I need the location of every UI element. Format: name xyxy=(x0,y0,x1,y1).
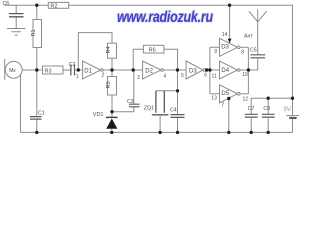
svg-text:VD1: VD1 xyxy=(93,112,104,118)
svg-text:10: 10 xyxy=(242,72,248,78)
svg-text:C2: C2 xyxy=(69,62,76,68)
svg-text:D5: D5 xyxy=(221,91,229,97)
svg-text:C6: C6 xyxy=(3,1,10,7)
svg-text:C8: C8 xyxy=(263,106,270,112)
svg-text:R1: R1 xyxy=(31,29,37,36)
svg-text:R2: R2 xyxy=(50,4,57,10)
svg-text:R3: R3 xyxy=(45,68,52,74)
svg-text:12: 12 xyxy=(243,96,249,102)
svg-text:R6: R6 xyxy=(149,47,156,53)
svg-text:6: 6 xyxy=(204,73,207,79)
svg-text:5: 5 xyxy=(181,73,184,79)
svg-text:8: 8 xyxy=(241,49,244,55)
svg-text:R4: R4 xyxy=(106,46,112,53)
svg-text:7: 7 xyxy=(221,102,224,108)
svg-text:C3: C3 xyxy=(127,99,134,105)
svg-text:ZQ1: ZQ1 xyxy=(144,106,154,112)
svg-text:C1: C1 xyxy=(38,111,45,117)
svg-text:13: 13 xyxy=(211,96,217,102)
svg-text:D3: D3 xyxy=(221,44,229,50)
svg-text:14: 14 xyxy=(222,32,228,38)
svg-text:Мк: Мк xyxy=(9,68,16,74)
svg-text:9V: 9V xyxy=(284,107,291,113)
svg-text:4: 4 xyxy=(163,73,166,79)
svg-text:9: 9 xyxy=(214,49,217,55)
svg-text:1: 1 xyxy=(76,74,79,80)
svg-text:3: 3 xyxy=(137,75,140,81)
svg-text:D4: D4 xyxy=(221,68,229,74)
svg-text:D3: D3 xyxy=(189,68,197,74)
svg-text:D2: D2 xyxy=(145,68,153,74)
svg-text:11: 11 xyxy=(212,73,217,79)
svg-text:2: 2 xyxy=(102,72,105,78)
svg-text:C7: C7 xyxy=(248,106,255,112)
svg-text:C5: C5 xyxy=(250,48,257,54)
svg-text:C4: C4 xyxy=(170,108,177,114)
svg-text:R5: R5 xyxy=(106,81,112,88)
svg-text:Ант: Ант xyxy=(244,33,253,39)
svg-text:D1: D1 xyxy=(84,69,92,75)
